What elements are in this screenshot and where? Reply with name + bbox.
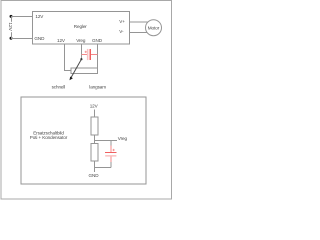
wire GND pin down to potentiometer (97, 44, 99, 68)
equivalent circuit panel box (21, 97, 146, 184)
svg-text:Regler: Regler (74, 24, 88, 29)
wiper arrow (70, 58, 83, 80)
supply terminal dot GND (10, 37, 13, 40)
wire GND supply to regulator (11, 38, 33, 40)
capacitor C1 (red, horizontal) (82, 49, 98, 60)
wire V+ to motor (130, 21, 149, 23)
wire bottom node (95, 167, 112, 169)
wire 12V stub (94, 110, 96, 118)
svg-text:schnell: schnell (52, 85, 66, 90)
regulator U1 box (33, 12, 130, 45)
resistor R2 (upper half of pot) (91, 117, 98, 135)
svg-text:V+: V+ (119, 19, 125, 24)
capacitor C2 (red, vertical) (105, 141, 116, 168)
svg-text:GND: GND (92, 38, 103, 43)
svg-text:GND: GND (34, 36, 45, 41)
motor M1 (146, 20, 162, 36)
svg-text:Vreg: Vreg (118, 136, 128, 141)
wire resistor to bottom node (94, 161, 96, 168)
supply terminal dot 12V (10, 15, 13, 18)
svg-text:Poti + Kondensator: Poti + Kondensator (30, 135, 68, 140)
resistor R3 (lower half of pot) (91, 144, 98, 161)
label 12V supply (rotated) (7, 22, 14, 32)
wire supply vertical between terminals (11, 16, 13, 38)
svg-text:V-: V- (119, 29, 124, 34)
wire Vreg branch (95, 140, 118, 142)
wire 12V supply to regulator (11, 16, 33, 18)
wire 12V pin down to potentiometer (65, 44, 71, 71)
svg-text:GND: GND (89, 173, 100, 178)
wire between resistors (94, 135, 96, 144)
svg-text:12V: 12V (90, 104, 99, 109)
wire Vreg pin down to wiper (81, 44, 83, 59)
potentiometer R1 body (71, 68, 98, 73)
svg-text:12V: 12V (57, 38, 66, 43)
wire GND stub (94, 168, 96, 172)
svg-text:Vreg: Vreg (76, 38, 86, 43)
svg-text:langsam: langsam (89, 85, 106, 90)
svg-text:12V: 12V (7, 22, 13, 31)
svg-text:12V: 12V (35, 14, 44, 19)
svg-text:Motor: Motor (148, 25, 160, 30)
wire V- to motor (130, 32, 148, 34)
